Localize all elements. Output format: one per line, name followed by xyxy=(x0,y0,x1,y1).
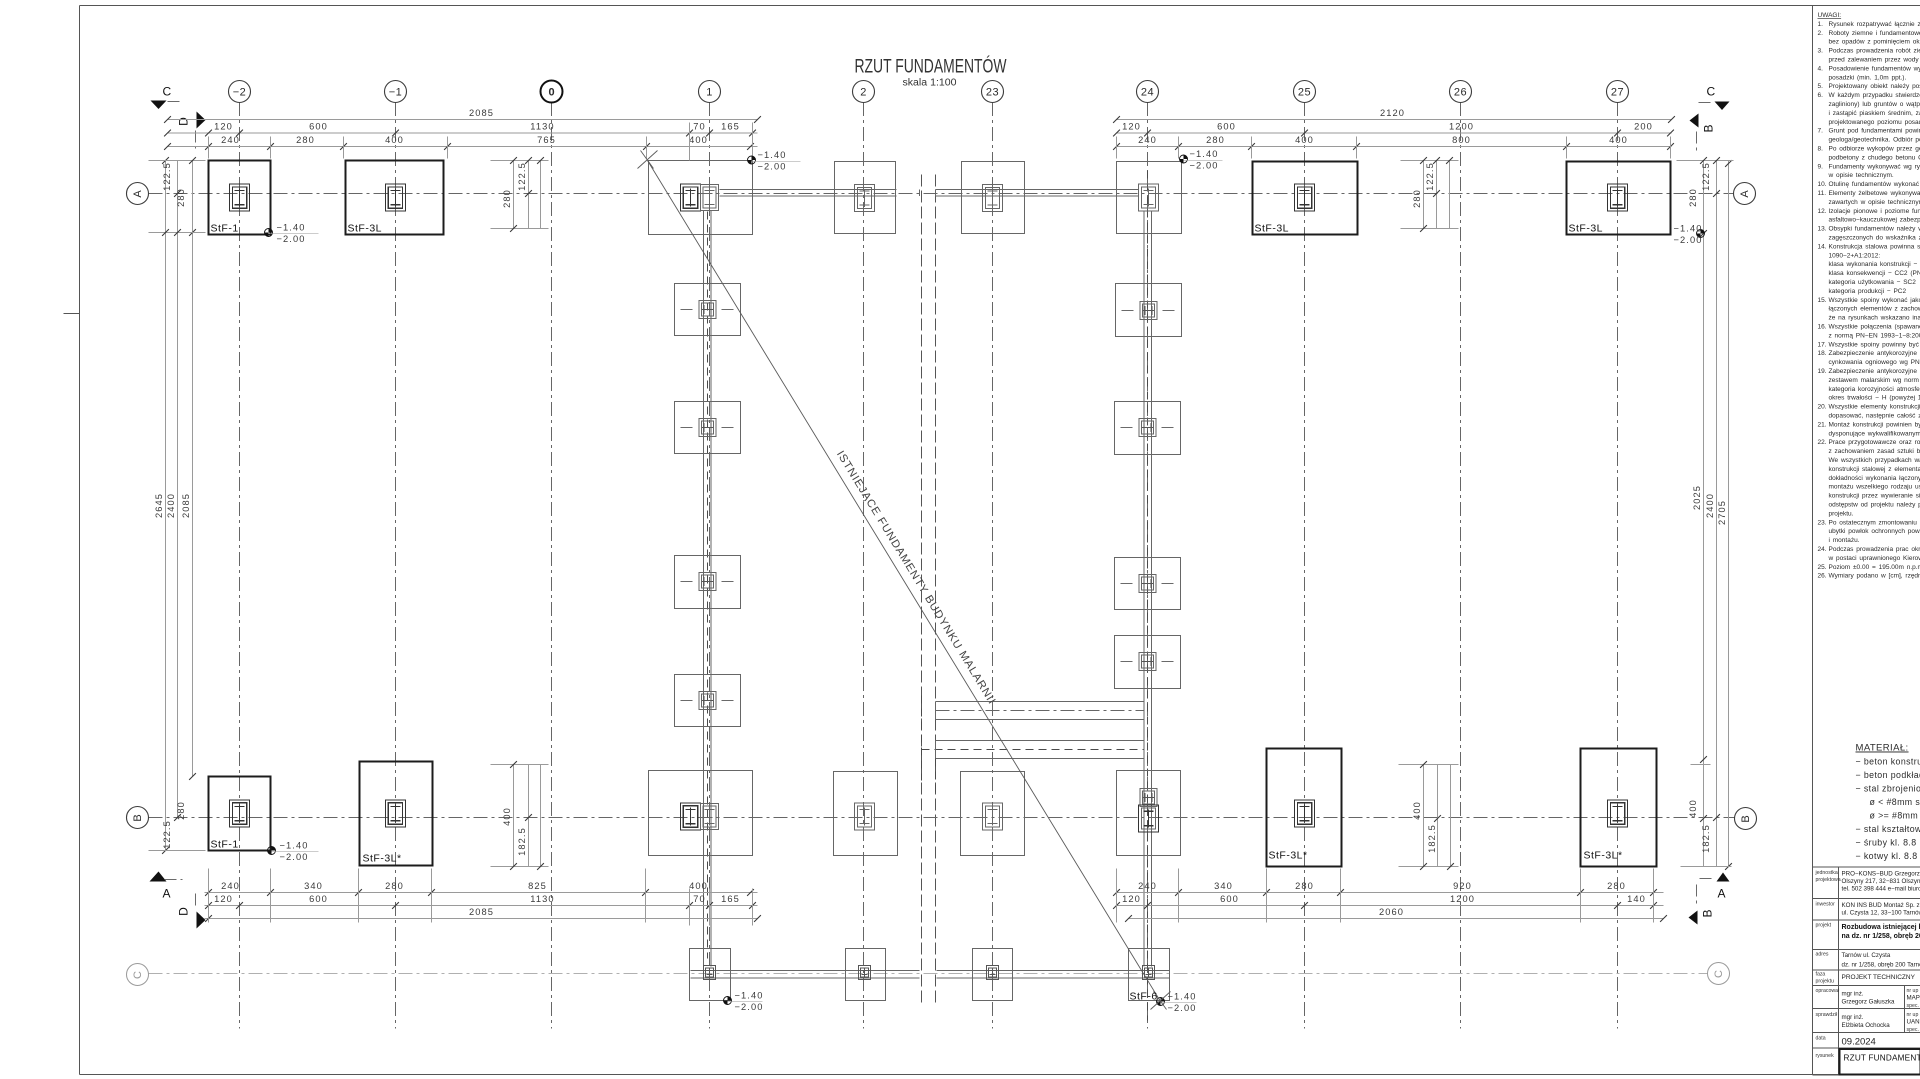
grid axis 25 (vertical) xyxy=(1294,81,1316,1029)
level mark -1.40/-2.00 at StF-6 xyxy=(1157,991,1197,1013)
grid axis A right circle xyxy=(1734,183,1756,205)
svg-text:8.: 8. xyxy=(1818,146,1824,153)
existing wall dashed on axis 24 xyxy=(1144,171,1152,1021)
bottom dimension chain row 2 right (120,600,1200,140) xyxy=(1113,894,1663,909)
svg-text:70: 70 xyxy=(693,894,706,904)
title block row data xyxy=(1816,1036,1876,1048)
pad axis 2/C xyxy=(846,949,886,1001)
svg-text:2705: 2705 xyxy=(1717,500,1727,525)
svg-text:B: B xyxy=(1740,815,1752,822)
svg-text:nr up: nr up xyxy=(1907,988,1919,994)
svg-text:Izolacje pionowe i poziome fun: Izolacje pionowe i poziome fundamentów w… xyxy=(1829,208,1920,215)
svg-text:−1.40: −1.40 xyxy=(280,840,309,850)
svg-text:projektu: projektu xyxy=(1816,979,1835,985)
level mark -1.40/-2.00 at StF-3L 27/A xyxy=(1673,223,1704,245)
svg-text:600: 600 xyxy=(1220,894,1239,904)
grid axis C (horizontal) xyxy=(127,964,1708,986)
svg-text:Olszyny 217, 32−831 Olszyny: Olszyny 217, 32−831 Olszyny xyxy=(1842,878,1920,885)
svg-text:22.: 22. xyxy=(1818,439,1827,446)
svg-text:faza: faza xyxy=(1816,972,1826,978)
svg-text:280: 280 xyxy=(502,189,512,208)
existing strip foundation 2 (between axes 23-24) xyxy=(922,741,1145,759)
svg-text:dopasować, następnie całość zm: dopasować, następnie całość zmontować na… xyxy=(1829,413,1920,420)
notes panel UWAGI xyxy=(1818,12,1920,580)
svg-text:UAN−: UAN− xyxy=(1907,1019,1920,1026)
svg-text:240: 240 xyxy=(1138,135,1157,145)
column H at pad axis 1 interm 2 xyxy=(699,419,716,437)
column HEB at 25/B xyxy=(1295,800,1315,827)
expansion joint axes between 2 and 23 xyxy=(922,175,936,1003)
svg-text:ul. Czysta 12, 33−100 Tarnów: ul. Czysta 12, 33−100 Tarnów xyxy=(1842,910,1920,917)
grid axis −2 (vertical) xyxy=(229,81,251,1029)
svg-text:120: 120 xyxy=(1122,894,1141,904)
svg-text:−2.00: −2.00 xyxy=(1190,160,1219,170)
svg-text:MATERIAŁ:: MATERIAŁ: xyxy=(1856,743,1909,754)
svg-text:−1.40: −1.40 xyxy=(1168,991,1197,1001)
pad axis 1 interm 3 xyxy=(675,556,741,609)
svg-text:280: 280 xyxy=(1688,188,1698,207)
svg-text:Wymiary podano w [cm], rzędne: Wymiary podano w [cm], rzędne w [m]. xyxy=(1829,573,1920,580)
footing StF-3L* axis -1/B xyxy=(360,762,433,866)
footing StF-1 axis -2/B xyxy=(209,777,271,851)
svg-text:projektu.: projektu. xyxy=(1829,510,1854,517)
pad axis 24 interm 4 xyxy=(1115,636,1181,689)
svg-text:120: 120 xyxy=(214,122,233,132)
svg-text:na dz. nr 1/258, obręb 200 Tar: na dz. nr 1/258, obręb 200 Tarnów xyxy=(1842,933,1920,940)
svg-text:spec.: spec. xyxy=(1907,1027,1919,1033)
svg-text:skala 1:100: skala 1:100 xyxy=(903,78,957,89)
level mark -1.40/-2.00 at axis 24/A xyxy=(1180,149,1223,171)
svg-text:StF-3L: StF-3L xyxy=(348,223,383,235)
svg-text:18.: 18. xyxy=(1818,350,1827,357)
svg-text:25: 25 xyxy=(1298,86,1311,98)
existing strip foundation 1 (between axes 23-24) xyxy=(936,702,1145,720)
footing StF-3L axis -1/A xyxy=(346,161,444,235)
svg-text:122.5: 122.5 xyxy=(1425,162,1435,191)
grid axis B (horizontal) xyxy=(127,807,1735,829)
svg-text:09.2024: 09.2024 xyxy=(1842,1037,1876,1048)
svg-text:We wszystkich przypadkach wątp: We wszystkich przypadkach wątpliwości pr… xyxy=(1829,457,1920,464)
footing pad axis 24/B xyxy=(1117,771,1181,856)
column HEB at 25/A xyxy=(1295,184,1315,211)
section marker D top-left xyxy=(177,112,206,149)
svg-text:mgr inż.: mgr inż. xyxy=(1842,991,1864,998)
svg-text:340: 340 xyxy=(304,881,323,891)
wall double line on axis 1 xyxy=(704,211,712,967)
svg-text:280: 280 xyxy=(176,188,186,207)
svg-text:−1.40: −1.40 xyxy=(735,990,764,1000)
svg-text:bez opadów z pominięciem okres: bez opadów z pominięciem okresów zimowyc… xyxy=(1829,39,1920,46)
section marker C top-left xyxy=(151,85,183,110)
column at 2/A xyxy=(855,185,875,212)
vertical dims near axis 0 row B (400, 182.5) xyxy=(491,761,549,870)
svg-text:A: A xyxy=(163,887,171,901)
svg-text:240: 240 xyxy=(221,135,240,145)
top dimension chain row 2 left (120,600,1130,70,165) xyxy=(164,122,757,137)
svg-text:montażu wszelkiego rodzaju ust: montażu wszelkiego rodzaju usterek, nie … xyxy=(1829,484,1920,491)
bottom dimension chain row 1 right (240,340,280,920,280) xyxy=(1113,881,1663,896)
strip foundation row C (right part) xyxy=(937,971,1170,979)
svg-text:StF-3L*: StF-3L* xyxy=(363,853,402,865)
svg-text:600: 600 xyxy=(309,122,328,132)
column at 23/A xyxy=(983,185,1003,212)
svg-text:17.: 17. xyxy=(1818,341,1827,348)
column at 23/B xyxy=(983,803,1003,830)
svg-text:i zastąpić piaskiem średnim, z: i zastąpić piaskiem średnim, zagęszczony… xyxy=(1829,110,1920,117)
svg-text:podbetony z chudego betonu C8/: podbetony z chudego betonu C8/10 gr. 10c… xyxy=(1829,154,1920,161)
title block row rysunek xyxy=(1816,1049,1920,1075)
svg-text:Obsypki fundamentów należy wyk: Obsypki fundamentów należy wykonać z gru… xyxy=(1829,226,1920,233)
footing pad axis 2/A xyxy=(835,162,896,234)
svg-text:Fundamenty wykonywać wg rysunk: Fundamenty wykonywać wg rysunków szczegó… xyxy=(1829,163,1920,170)
grid axis A (horizontal) xyxy=(127,183,1734,205)
svg-text:klasa wykonania konstrukcji −: klasa wykonania konstrukcji − EXC2 xyxy=(1829,261,1920,268)
existing column at 1/B xyxy=(701,804,719,830)
svg-text:Konstrukcja stalowa powinna sp: Konstrukcja stalowa powinna spełniać wym… xyxy=(1829,243,1920,250)
svg-text:projekt: projekt xyxy=(1816,923,1832,929)
footing pad axis 1/A (existing+new) xyxy=(649,161,753,235)
section marker D bottom-left xyxy=(177,894,206,929)
svg-text:2085: 2085 xyxy=(469,108,494,118)
section marker B top-right xyxy=(1690,114,1716,151)
footing StF-1 axis -2/A xyxy=(209,161,271,235)
column at pad axis 2/C xyxy=(859,966,871,980)
grid axis 27 (vertical) xyxy=(1607,81,1629,1029)
svg-text:dokładności wykonania łączonyc: dokładności wykonania łączonych elementó… xyxy=(1829,475,1920,482)
bottom dimension chain row 2 left (120,600,1130,70,165) xyxy=(205,894,758,909)
section marker B bottom-right xyxy=(1689,885,1715,925)
grid axis 24 (vertical) xyxy=(1137,81,1159,1029)
svg-text:182.5: 182.5 xyxy=(517,827,527,856)
svg-text:dysponujące wykwalifikowanym p: dysponujące wykwalifikowanym personelem … xyxy=(1829,430,1920,437)
svg-text:że na rysunkach wskazano inacz: że na rysunkach wskazano inaczej. xyxy=(1829,315,1920,322)
section marker A bottom-right xyxy=(1700,873,1730,901)
svg-text:Wszystkie połączenia (spawane: Wszystkie połączenia (spawane i śrubowe)… xyxy=(1829,324,1920,331)
top dimension chain row 3 left (240,280,400,765,400) xyxy=(164,135,757,150)
svg-text:400: 400 xyxy=(1412,801,1422,820)
svg-text:jednostka: jednostka xyxy=(1815,870,1838,876)
svg-text:2645: 2645 xyxy=(154,493,164,518)
extension lines bottom chains xyxy=(209,869,1654,926)
svg-text:280: 280 xyxy=(385,881,404,891)
svg-text:26.: 26. xyxy=(1818,573,1827,580)
svg-text:600: 600 xyxy=(309,894,328,904)
footing pad axis 1/B xyxy=(649,771,753,856)
column HEB at 27/A xyxy=(1608,184,1628,211)
svg-text:2120: 2120 xyxy=(1380,108,1405,118)
svg-text:konstrukcji stalowej z element: konstrukcji stalowej z elementami istnie… xyxy=(1829,466,1920,473)
column HEB at 1/B new xyxy=(681,803,701,830)
svg-text:UWAGI:: UWAGI: xyxy=(1818,12,1842,19)
svg-text:MAP/0: MAP/0 xyxy=(1907,995,1920,1002)
svg-text:26: 26 xyxy=(1454,86,1467,98)
svg-text:− śruby kl. 8.8: − śruby kl. 8.8 xyxy=(1856,838,1917,848)
svg-text:400: 400 xyxy=(1295,135,1314,145)
svg-text:20.: 20. xyxy=(1818,404,1827,411)
svg-text:5.: 5. xyxy=(1818,83,1824,90)
svg-text:Posadowienie fundamentów wykon: Posadowienie fundamentów wykonać poniżej… xyxy=(1829,65,1920,72)
title block table xyxy=(1813,867,1920,1075)
svg-text:2085: 2085 xyxy=(181,493,191,518)
svg-text:z zachowaniem zasad sztuki bud: z zachowaniem zasad sztuki budowlanej or… xyxy=(1829,448,1920,455)
level mark -1.40/-2.00 at StF-1 A xyxy=(265,222,319,244)
svg-text:Montaż konstrukcji powinien by: Montaż konstrukcji powinien być wykonany… xyxy=(1829,421,1920,428)
svg-text:−2.00: −2.00 xyxy=(280,852,309,862)
column HEB at -2/A xyxy=(230,184,250,211)
svg-text:A: A xyxy=(1739,190,1751,198)
pad axis 24 interm 2 xyxy=(1115,402,1181,455)
MATERIAL section xyxy=(1856,743,1920,862)
svg-text:posadzki (min. 1,0m ppt.).: posadzki (min. 1,0m ppt.). xyxy=(1829,74,1907,81)
svg-text:122.5: 122.5 xyxy=(517,162,527,191)
bottom dimension chain row 1 left (240,340,280,825,400) xyxy=(205,881,758,896)
existing column at 1/A xyxy=(701,185,719,211)
level mark -1.40/-2.00 at axis 1/A xyxy=(748,150,801,172)
pad axis 24 interm 3 xyxy=(1115,558,1181,610)
svg-text:Grunt pod fundamentami powinie: Grunt pod fundamentami powinien być odeb… xyxy=(1829,128,1920,135)
svg-text:2400: 2400 xyxy=(166,493,176,518)
svg-text:Elżbieta Ochocka: Elżbieta Ochocka xyxy=(1842,1022,1891,1029)
pad axis 1 interm 4 xyxy=(675,675,741,727)
level mark -1.40/-2.00 at axis 1/C xyxy=(724,990,764,1012)
column H at pad axis 24 interm 3 xyxy=(1139,575,1156,593)
bottom dimension chain row 3 left (2085) xyxy=(205,907,761,922)
svg-text:konstrukcji przez wywieranie s: konstrukcji przez wywieranie siły. O wsz… xyxy=(1829,493,1920,500)
svg-text:200: 200 xyxy=(1634,122,1653,132)
svg-text:mgr inż.: mgr inż. xyxy=(1842,1014,1864,1021)
svg-text:2025: 2025 xyxy=(1692,485,1702,510)
svg-text:−1.40: −1.40 xyxy=(1673,223,1702,233)
svg-text:odstępstw od projektu należy p: odstępstw od projektu należy powiadomić … xyxy=(1829,502,1920,509)
svg-text:RZUT FUNDAMENTÓW: RZUT FUNDAMENTÓW xyxy=(1844,1053,1920,1063)
left vertical dims at row A (122.5, 280) xyxy=(149,157,206,236)
svg-text:− stal kształtowa S235JR, S355: − stal kształtowa S235JR, S355J2 xyxy=(1856,824,1920,834)
svg-text:D: D xyxy=(177,907,191,916)
drawing title RZUT FUNDAMENTOW xyxy=(855,56,1007,89)
vertical dims near axis 26 row A (122.5, 280) xyxy=(1401,157,1459,232)
svg-text:−2: −2 xyxy=(233,86,247,98)
diagonal line existing foundations xyxy=(638,151,1171,1010)
svg-text:w postaci uprawnionego Kierown: w postaci uprawnionego Kierownika Budowy… xyxy=(1828,555,1920,562)
grid axis 1 (vertical) xyxy=(699,81,721,1029)
column HEB at -1/B xyxy=(386,800,406,827)
right vertical dims at row B (400, 182.5) xyxy=(1681,765,1732,867)
svg-text:D: D xyxy=(177,117,191,126)
svg-text:Projektowany obiekt należy pos: Projektowany obiekt należy posadowić na … xyxy=(1829,83,1920,90)
svg-text:10.: 10. xyxy=(1818,181,1827,188)
svg-text:24: 24 xyxy=(1141,86,1154,98)
svg-text:StF-6: StF-6 xyxy=(1130,991,1158,1003)
svg-text:PROJEKT TECHNICZNY: PROJEKT TECHNICZNY xyxy=(1842,974,1916,981)
svg-text:11.: 11. xyxy=(1818,190,1827,197)
svg-text:dz. nr 1/258, obręb 200 Tarnów: dz. nr 1/258, obręb 200 Tarnów xyxy=(1842,962,1920,969)
svg-text:280: 280 xyxy=(1295,881,1314,891)
svg-text:1090−2+A1:2012:: 1090−2+A1:2012: xyxy=(1829,252,1881,259)
column H at pad axis 1 interm 3 xyxy=(699,573,716,591)
footing pad axis 23/B xyxy=(961,772,1025,856)
svg-text:280: 280 xyxy=(296,135,315,145)
svg-text:− kotwy kl. 8.8: − kotwy kl. 8.8 xyxy=(1856,851,1918,861)
pad axis 23/C xyxy=(973,949,1013,1001)
svg-text:240: 240 xyxy=(1138,881,1157,891)
level mark -1.40/-2.00 at StF-1 B xyxy=(268,840,319,862)
title block row sprawdzil xyxy=(1816,1012,1920,1033)
svg-text:3.: 3. xyxy=(1818,48,1824,55)
pad axis 24 interm 1 xyxy=(1116,284,1182,337)
footing pad axis 23/A xyxy=(962,162,1025,234)
column HEB at 27/B xyxy=(1608,800,1628,827)
svg-text:ø >= #8mm stal A−IIIN (RB500W: ø >= #8mm stal A−IIIN (RB500W) xyxy=(1870,811,1920,821)
svg-text:400: 400 xyxy=(385,135,404,145)
svg-text:21.: 21. xyxy=(1818,421,1827,428)
svg-text:Tarnów ul. Czysta: Tarnów ul. Czysta xyxy=(1842,952,1891,959)
svg-text:1: 1 xyxy=(706,86,713,98)
svg-text:Po odbiorze wykopów przez geol: Po odbiorze wykopów przez geologa wykona… xyxy=(1829,146,1920,153)
svg-text:−1: −1 xyxy=(389,86,403,98)
svg-text:inwestor: inwestor xyxy=(1816,902,1836,908)
svg-text:2085: 2085 xyxy=(469,907,494,917)
svg-text:120: 120 xyxy=(1122,122,1141,132)
svg-text:klasa konsekwencji − CC2 (PN−E: klasa konsekwencji − CC2 (PN−EN 1990) xyxy=(1829,270,1920,277)
section marker C top-right xyxy=(1699,85,1730,111)
svg-text:280: 280 xyxy=(176,801,186,820)
svg-text:6.: 6. xyxy=(1818,92,1824,99)
svg-text:27: 27 xyxy=(1611,86,1624,98)
svg-text:C: C xyxy=(1707,85,1716,99)
svg-text:23.: 23. xyxy=(1818,519,1827,526)
svg-text:280: 280 xyxy=(1607,881,1626,891)
svg-text:25.: 25. xyxy=(1818,564,1827,571)
svg-text:400: 400 xyxy=(502,807,512,826)
svg-text:PRO−KONS−BUD Grzegorz Gałuszka: PRO−KONS−BUD Grzegorz Gałuszka xyxy=(1842,871,1920,878)
svg-text:B: B xyxy=(1702,124,1716,132)
vertical dims near axis 26 row B (400, 182.5) xyxy=(1399,761,1459,870)
top dimension chain row 1 right (2120) xyxy=(1113,108,1675,123)
svg-text:StF-3L*: StF-3L* xyxy=(1584,850,1623,862)
svg-text:ubytki powłok ochronnych powst: ubytki powłok ochronnych powstałych w cz… xyxy=(1829,528,1920,535)
footing StF-3L axis 25/A xyxy=(1253,162,1358,235)
svg-text:−2.00: −2.00 xyxy=(277,234,306,244)
svg-text:W każdym przypadku stwierdzeni: W każdym przypadku stwierdzenia gruntu n… xyxy=(1829,92,1920,99)
svg-text:StF-1: StF-1 xyxy=(211,223,239,235)
top dimension chain row 2 right (120,600,1200,200) xyxy=(1113,122,1674,137)
svg-text:2.: 2. xyxy=(1818,30,1824,37)
svg-text:−1.40: −1.40 xyxy=(758,150,787,160)
svg-text:B: B xyxy=(1701,909,1715,917)
svg-text:A: A xyxy=(1718,887,1726,901)
column at 2/B xyxy=(855,803,875,830)
svg-text:Podczas prowadzenia prac okres: Podczas prowadzenia prac okresowy nadzór… xyxy=(1829,546,1920,553)
top dimension chain row 3 right (240,280,400,800,400) xyxy=(1113,135,1674,150)
svg-text:0: 0 xyxy=(548,86,554,98)
svg-text:kategoria korozyjności atmosfe: kategoria korozyjności atmosfery − C3, xyxy=(1829,386,1920,393)
svg-text:1200: 1200 xyxy=(1450,894,1475,904)
footing pad axis 24/A xyxy=(1117,162,1182,234)
footing StF-3L* axis 27/B xyxy=(1581,749,1657,867)
column HEB at -2/B xyxy=(230,800,250,827)
svg-text:zawartych w opisie technicznym: zawartych w opisie technicznym i na rysu… xyxy=(1829,199,1920,206)
notes panel divider xyxy=(1812,6,1814,1075)
svg-text:A: A xyxy=(132,190,144,198)
svg-text:4.: 4. xyxy=(1818,65,1824,72)
svg-text:sprawdził: sprawdził xyxy=(1816,1012,1838,1018)
svg-text:rysunek: rysunek xyxy=(1816,1053,1835,1059)
svg-text:920: 920 xyxy=(1453,881,1472,891)
svg-text:StF-3L: StF-3L xyxy=(1569,223,1604,235)
svg-text:nr up: nr up xyxy=(1907,1012,1919,1018)
column at pad axis 1/C xyxy=(704,966,716,980)
left vertical dims at row B (280, 122.5) xyxy=(149,801,206,850)
svg-text:opracował: opracował xyxy=(1816,988,1840,994)
svg-text:C: C xyxy=(1713,970,1725,978)
column H at pad axis 1 interm 1 xyxy=(699,301,716,319)
vertical dims near axis 0 row A (122.5, 280) xyxy=(491,157,549,232)
svg-text:280: 280 xyxy=(1412,189,1422,208)
svg-text:StF-3L: StF-3L xyxy=(1255,223,1290,235)
existing wall dashed segments near strips xyxy=(922,696,936,793)
svg-text:przed zalewaniem przez wody op: przed zalewaniem przez wody opadowe i gr… xyxy=(1829,57,1920,64)
title block row opracowal xyxy=(1816,988,1920,1009)
svg-text:1.: 1. xyxy=(1818,21,1824,28)
svg-text:Zabezpieczenie antykorozyjne k: Zabezpieczenie antykorozyjne konstrukcji… xyxy=(1829,368,1920,375)
svg-text:Podczas prowadzenia robót ziem: Podczas prowadzenia robót ziemnych wykop… xyxy=(1829,48,1920,55)
svg-text:400: 400 xyxy=(689,135,708,145)
svg-text:600: 600 xyxy=(1217,122,1236,132)
svg-text:240: 240 xyxy=(221,881,240,891)
existing column H at 24/B xyxy=(1140,789,1157,807)
svg-text:Wszystkie spoiny powinny być p: Wszystkie spoiny powinny być poddane kon… xyxy=(1829,341,1920,348)
svg-text:zagliniony) lub gruntów o wątp: zagliniony) lub gruntów o wątpliwej nośn… xyxy=(1829,101,1920,108)
column H at pad axis 24 interm 4 xyxy=(1139,653,1156,671)
svg-text:1200: 1200 xyxy=(1449,122,1474,132)
svg-text:1130: 1130 xyxy=(530,122,554,132)
title block row faza projektu xyxy=(1816,972,1916,985)
grid axis C right circle xyxy=(1708,963,1730,985)
strip foundation row C (left part) xyxy=(691,971,920,979)
svg-text:165: 165 xyxy=(721,894,740,904)
svg-text:400: 400 xyxy=(1688,799,1698,818)
svg-text:800: 800 xyxy=(1452,135,1471,145)
title block row projekt xyxy=(1816,923,1920,941)
pad axis 24/C xyxy=(1129,949,1170,1001)
column HEB at -1/A xyxy=(386,184,406,211)
grid axis 2 (vertical) xyxy=(853,81,875,1029)
svg-text:Rysunek rozpatrywać łącznie z: Rysunek rozpatrywać łącznie z pozostałym… xyxy=(1829,21,1920,28)
svg-text:projektowanego poziomu posadow: projektowanego poziomu posadowienia. xyxy=(1829,119,1920,126)
title block row adres xyxy=(1816,952,1920,969)
tie beam strip row A (right part) xyxy=(936,190,1139,197)
svg-text:140: 140 xyxy=(1627,894,1646,904)
svg-text:data: data xyxy=(1816,1036,1826,1042)
svg-text:adres: adres xyxy=(1816,952,1829,958)
svg-text:spec.: spec. xyxy=(1907,1003,1919,1009)
svg-text:Elementy żelbetowe wykonywać z: Elementy żelbetowe wykonywać z zachowani… xyxy=(1829,190,1920,197)
svg-text:Otulinę fundamentów wykonać zg: Otulinę fundamentów wykonać zgodnie z op… xyxy=(1829,181,1920,188)
svg-text:765: 765 xyxy=(537,135,556,145)
extension lines top chains xyxy=(209,123,1671,161)
svg-text:340: 340 xyxy=(1214,881,1233,891)
svg-text:70: 70 xyxy=(693,122,706,132)
svg-text:w opisie technicznym.: w opisie technicznym. xyxy=(1828,172,1894,179)
svg-text:Prace przygotowawcze oraz robo: Prace przygotowawcze oraz roboty montażo… xyxy=(1829,439,1920,446)
svg-text:2060: 2060 xyxy=(1379,907,1404,917)
svg-text:− beton konstrukcyjny C25/30: − beton konstrukcyjny C25/30 xyxy=(1856,757,1920,767)
svg-text:projektowa: projektowa xyxy=(1816,877,1841,883)
svg-text:asfaltowo−kauczukowej zabezpie: asfaltowo−kauczukowej zabezpieczającej p… xyxy=(1829,217,1920,224)
column H at pad axis 24 interm 2 xyxy=(1139,419,1156,437)
right overall vertical dims (2025,2400,2705) xyxy=(1692,160,1732,870)
svg-text:geologa/geotechnika. Odbiór po: geologa/geotechnika. Odbiór potwierdzić … xyxy=(1829,137,1920,144)
